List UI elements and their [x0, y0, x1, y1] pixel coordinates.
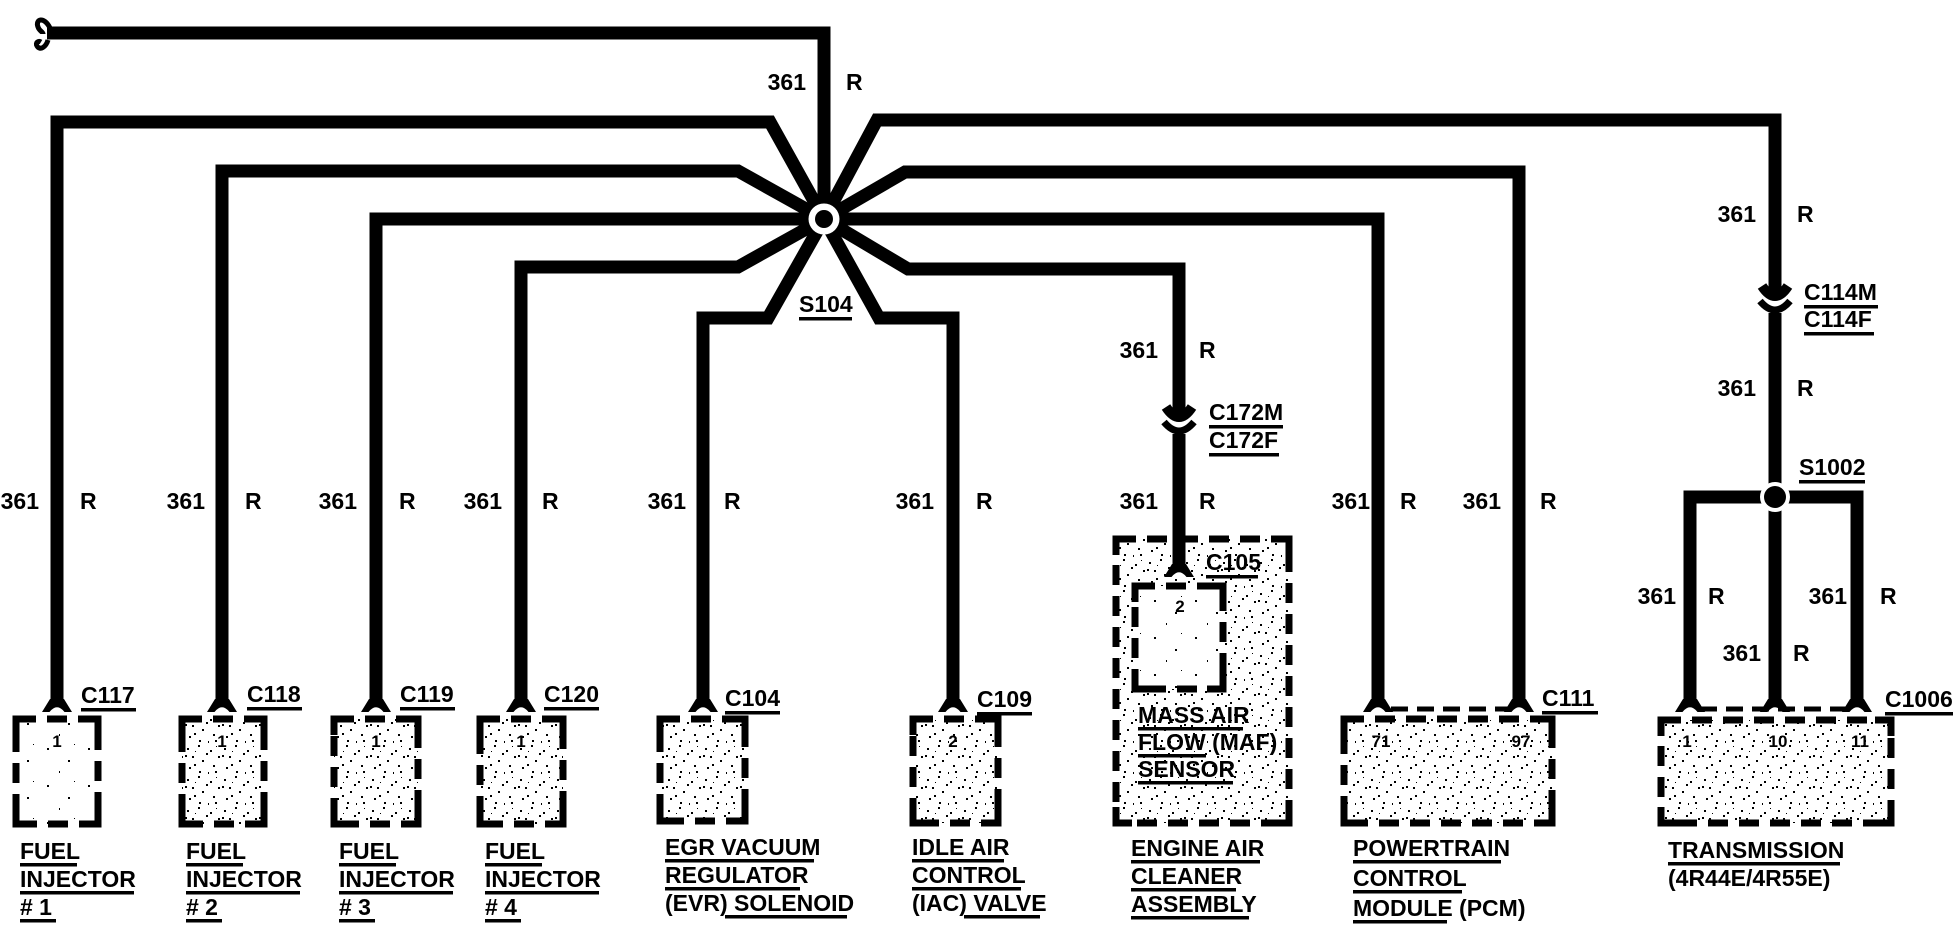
svg-text:1: 1: [52, 732, 61, 751]
svg-text:R: R: [1708, 583, 1725, 609]
svg-text:C118: C118: [247, 681, 301, 707]
svg-text:C172M: C172M: [1209, 399, 1283, 425]
svg-text:R: R: [1199, 488, 1216, 514]
svg-text:2: 2: [1175, 597, 1184, 616]
svg-text:R: R: [1793, 640, 1810, 666]
svg-text:CONTROL: CONTROL: [1353, 865, 1467, 891]
svg-text:CONTROL: CONTROL: [912, 862, 1026, 888]
svg-text:FUEL: FUEL: [186, 838, 246, 864]
svg-text:# 2: # 2: [186, 894, 218, 920]
svg-text:361: 361: [1, 488, 40, 514]
svg-text:C109: C109: [977, 686, 1032, 712]
svg-text:361: 361: [648, 488, 687, 514]
svg-text:R: R: [724, 488, 741, 514]
svg-text:361: 361: [1332, 488, 1371, 514]
svg-text:361: 361: [1120, 337, 1159, 363]
svg-text:361: 361: [1463, 488, 1502, 514]
svg-text:MASS AIR: MASS AIR: [1138, 702, 1250, 728]
svg-text:361: 361: [464, 488, 503, 514]
svg-text:71: 71: [1372, 732, 1391, 751]
svg-text:EGR VACUUM: EGR VACUUM: [665, 834, 820, 860]
svg-text:361: 361: [1723, 640, 1762, 666]
svg-text:11: 11: [1851, 732, 1869, 751]
svg-text:ENGINE AIR: ENGINE AIR: [1131, 835, 1265, 861]
svg-text:TRANSMISSION: TRANSMISSION: [1668, 837, 1844, 863]
svg-text:MODULE (PCM): MODULE (PCM): [1353, 895, 1525, 921]
svg-text:INJECTOR: INJECTOR: [485, 866, 601, 892]
svg-text:(IAC) VALVE: (IAC) VALVE: [912, 890, 1047, 916]
svg-text:R: R: [1797, 375, 1814, 401]
svg-text:361: 361: [1120, 488, 1159, 514]
svg-text:361: 361: [319, 488, 358, 514]
svg-text:C120: C120: [544, 681, 599, 707]
svg-text:(EVR) SOLENOID: (EVR) SOLENOID: [665, 890, 854, 916]
svg-text:R: R: [976, 488, 993, 514]
svg-text:INJECTOR: INJECTOR: [20, 866, 136, 892]
svg-text:R: R: [1540, 488, 1557, 514]
svg-text:2: 2: [948, 732, 957, 751]
svg-text:C104: C104: [725, 685, 780, 711]
svg-text:R: R: [1199, 337, 1216, 363]
svg-text:FUEL: FUEL: [20, 838, 80, 864]
svg-text:R: R: [245, 488, 262, 514]
svg-text:ASSEMBLY: ASSEMBLY: [1131, 891, 1257, 917]
svg-text:361: 361: [1718, 375, 1757, 401]
svg-text:361: 361: [896, 488, 935, 514]
svg-text:1: 1: [516, 732, 525, 751]
svg-text:S104: S104: [799, 291, 853, 317]
svg-text:1: 1: [1682, 732, 1691, 751]
svg-text:INJECTOR: INJECTOR: [186, 866, 302, 892]
svg-text:SENSOR: SENSOR: [1138, 756, 1236, 782]
svg-text:1: 1: [371, 732, 380, 751]
svg-text:361: 361: [1718, 201, 1757, 227]
svg-text:FUEL: FUEL: [485, 838, 545, 864]
svg-text:C114M: C114M: [1804, 279, 1877, 305]
svg-text:FLOW (MAF): FLOW (MAF): [1138, 729, 1277, 755]
svg-text:C117: C117: [81, 682, 135, 708]
svg-text:INJECTOR: INJECTOR: [339, 866, 455, 892]
svg-text:R: R: [399, 488, 416, 514]
svg-text:10: 10: [1769, 732, 1788, 751]
svg-text:POWERTRAIN: POWERTRAIN: [1353, 835, 1510, 861]
svg-text:361: 361: [768, 69, 807, 95]
svg-text:IDLE AIR: IDLE AIR: [912, 834, 1010, 860]
svg-text:C119: C119: [400, 681, 454, 707]
svg-text:REGULATOR: REGULATOR: [665, 862, 809, 888]
svg-text:R: R: [1400, 488, 1417, 514]
svg-text:C111: C111: [1542, 685, 1595, 711]
svg-text:361: 361: [167, 488, 206, 514]
svg-text:CLEANER: CLEANER: [1131, 863, 1243, 889]
svg-text:FUEL: FUEL: [339, 838, 399, 864]
svg-text:R: R: [1797, 201, 1814, 227]
svg-text:(4R44E/4R55E): (4R44E/4R55E): [1668, 865, 1830, 891]
svg-text:R: R: [1880, 583, 1897, 609]
svg-text:C172F: C172F: [1209, 427, 1278, 453]
svg-text:C1006: C1006: [1885, 686, 1953, 712]
svg-text:361: 361: [1809, 583, 1848, 609]
svg-text:R: R: [542, 488, 559, 514]
svg-text:1: 1: [217, 732, 226, 751]
svg-text:S1002: S1002: [1799, 454, 1866, 480]
svg-text:C114F: C114F: [1804, 306, 1872, 332]
svg-text:C105: C105: [1206, 549, 1261, 575]
svg-text:# 1: # 1: [20, 894, 52, 920]
svg-text:R: R: [846, 69, 863, 95]
svg-text:361: 361: [1638, 583, 1677, 609]
svg-text:# 4: # 4: [485, 894, 517, 920]
svg-text:# 3: # 3: [339, 894, 371, 920]
svg-text:R: R: [80, 488, 97, 514]
svg-text:97: 97: [1512, 732, 1531, 751]
